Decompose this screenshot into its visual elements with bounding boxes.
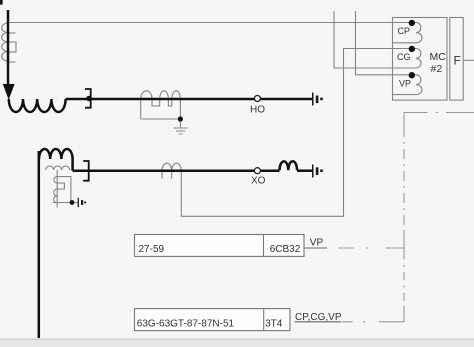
svg-text:CP: CP (398, 26, 411, 36)
svg-text:F: F (454, 54, 461, 68)
svg-text:6CB32: 6CB32 (270, 244, 301, 255)
svg-text:HO: HO (250, 105, 265, 116)
svg-text:#2: #2 (431, 63, 443, 75)
svg-text:CG: CG (397, 52, 411, 62)
svg-text:XO: XO (251, 176, 266, 187)
svg-text:CP,CG,VP: CP,CG,VP (295, 312, 342, 323)
svg-text:VP: VP (399, 78, 411, 88)
svg-text:3T4: 3T4 (265, 319, 283, 330)
svg-text:63G-63GT-87-87N-51: 63G-63GT-87-87N-51 (137, 319, 235, 330)
svg-text:27-59: 27-59 (139, 244, 165, 255)
svg-text:VP: VP (310, 237, 324, 248)
svg-text:MC: MC (430, 51, 447, 63)
